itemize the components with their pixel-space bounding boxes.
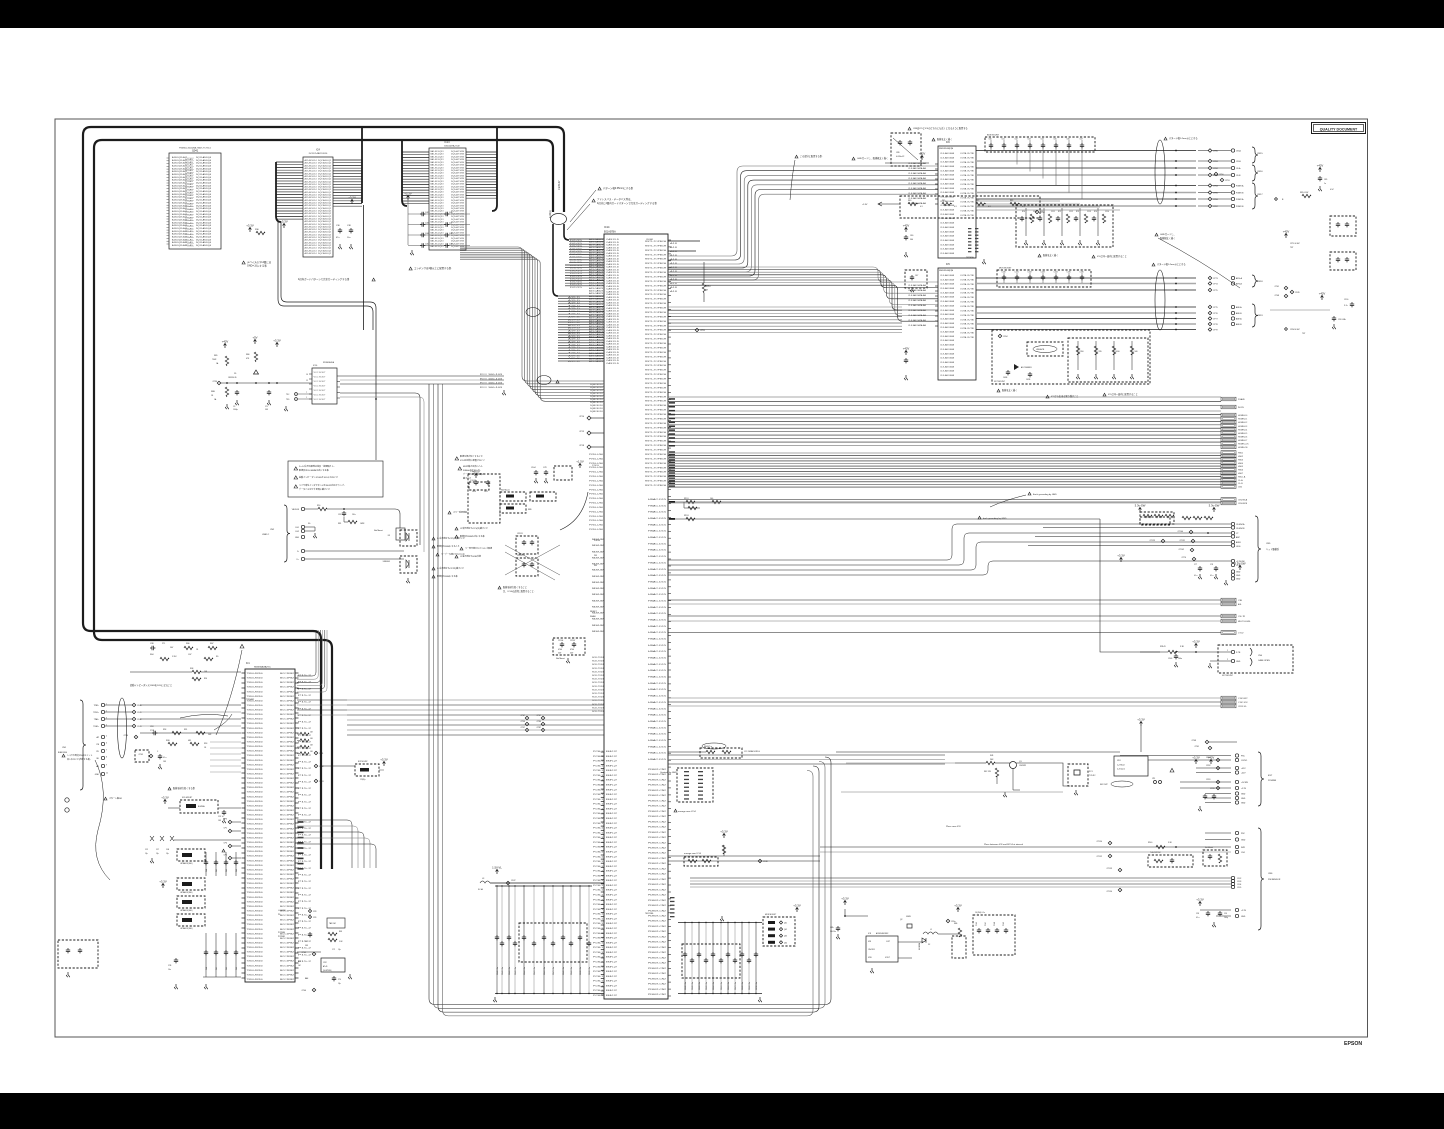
svg-text:DQ5-A7-VSS: DQ5-A7-VSS [451,191,465,194]
dashed box ULVCC [554,466,572,480]
svg-text:HSAC-D15: HSAC-D15 [648,701,668,704]
svg-text:PDB07-CN2: PDB07-CN2 [648,837,667,839]
svg-text:A13-CAS23: A13-CAS23 [589,336,604,339]
svg-text:TXD0-RXD0: TXD0-RXD0 [247,732,263,734]
svg-text:RST1-TOPBCH: RST1-TOPBCH [645,423,667,425]
svg-text:C144 0.1u: C144 0.1u [524,967,526,975]
svg-text:C53: C53 [236,967,238,970]
svg-text:A19-D: A19-D [568,357,582,360]
svg-text:CP154: CP154 [1107,891,1113,893]
wire IC4 bottom fanout [281,222,376,399]
svg-text:APG-A: APG-A [1236,277,1243,280]
svg-text:TXD0-RXD0: TXD0-RXD0 [247,796,263,798]
ferrite dashed box 3 [177,896,205,908]
svg-text:DQ7-A3-DQ2: DQ7-A3-DQ2 [318,236,332,239]
svg-text:A15-NC-D14: A15-NC-D14 [305,159,318,162]
svg-text:BA1-NC-DQ13: BA1-NC-DQ13 [431,231,445,234]
svg-text:BK2: BK2 [606,981,617,983]
power +42V and cap C85 right [1319,167,1322,172]
svg-text:PDB07-CN2: PDB07-CN2 [648,863,667,865]
svg-text:DQM0 SDCLK: DQM0 SDCLK [590,396,604,398]
title block QUALITY DOCUMENT [1312,123,1366,134]
terminal GND circles CN5 [1231,570,1234,573]
svg-text:MDM-3M: MDM-3M [592,551,605,553]
svg-text:PGAVE: PGAVE [1238,398,1245,401]
wire long lines from IC1 right to mid [297,699,347,701]
svg-text:HOME-D2: HOME-D2 [1238,422,1248,424]
svg-text:PCSL1: PCSL1 [593,799,603,801]
svg-text:P15-2: P15-2 [298,788,311,790]
svg-text:CLK-AB DATA: CLK-AB DATA [940,335,955,338]
svg-text:CLK-AB DATA: CLK-AB DATA [940,252,955,255]
svg-text:パターン幅0.35mmにする事: パターン幅0.35mmにする事 [603,186,634,190]
wire comb right edge of IC13 descending [492,127,497,211]
svg-text:TXD0-RXD0: TXD0-RXD0 [247,837,263,839]
svg-text:P15-2: P15-2 [298,768,311,770]
svg-text:TXD0-RXD0: TXD0-RXD0 [247,938,263,940]
svg-text:A18: A18 [670,246,677,249]
svg-text:OUTA OUTB/: OUTA OUTB/ [960,274,975,277]
svg-text:DQ7-A3-DQ2: DQ7-A3-DQ2 [318,212,332,215]
svg-text:BK2: BK2 [606,823,617,825]
wire OUT bundle driver IC5 lower to CN19 [976,306,1196,308]
svg-text:CP45: CP45 [302,952,307,954]
svg-text:A1C19686D5: A1C19686D5 [1021,366,1032,369]
svg-text:BK2: BK2 [606,971,617,973]
svg-text:TXD0-RXD0: TXD0-RXD0 [247,943,263,945]
svg-text:TPB1-: TPB1- [94,705,100,707]
svg-text:PDB07-CN2: PDB07-CN2 [648,842,667,844]
svg-text:IEEE1394: IEEE1394 [58,752,68,754]
terminal marks TXC TXD [295,393,298,396]
svg-text:A18: A18 [670,286,677,289]
svg-text:DQ11-A9-DQ4: DQ11-A9-DQ4 [196,182,212,185]
svg-text:RST1-TOPBCH: RST1-TOPBCH [645,254,667,256]
svg-text:CP93: CP93 [700,330,705,332]
svg-text:BA1-NC-DQ13: BA1-NC-DQ13 [431,215,445,218]
svg-text:TEST.SEL: TEST.SEL [645,913,654,915]
svg-text:R153: R153 [684,515,689,517]
svg-text:CP131: CP131 [1180,540,1186,542]
svg-text:C146: C146 [976,922,978,926]
svg-text:CAS13-D: CAS13-D [606,252,620,255]
svg-text:PDB07-CN2: PDB07-CN2 [648,931,667,933]
terminal C3B pair [1221,598,1236,602]
wire VBUS to comparator [360,509,400,528]
svg-text:DQM0 SDCLK: DQM0 SDCLK [590,384,604,386]
svg-text:BCC1FB2: BCC1FB2 [280,819,294,821]
svg-text:HSAC-D15: HSAC-D15 [648,606,668,609]
svg-text:P15-2: P15-2 [298,901,311,903]
wire exits IC1 right upper going up [297,630,316,676]
svg-text:BCC1FB2: BCC1FB2 [280,929,294,931]
svg-text:10u: 10u [347,237,350,239]
svg-text:MDM-3M: MDM-3M [592,600,605,602]
svg-text:DQ7-A3-DQ2: DQ7-A3-DQ2 [318,247,332,250]
svg-text:HSAC-D15: HSAC-D15 [648,555,668,558]
svg-text:DQ7-A3-DQ2: DQ7-A3-DQ2 [318,202,332,205]
svg-text:R81: R81 [338,523,341,525]
svg-text:DQM0 SDCLK: DQM0 SDCLK [590,402,604,404]
svg-text:BCC1FB2: BCC1FB2 [280,751,294,753]
svg-text:DQ5-A7-VSS: DQ5-A7-VSS [451,229,465,232]
power +42V cluster left of IC5 [905,350,908,355]
svg-text:RST1-TOPBCH: RST1-TOPBCH [645,370,667,372]
svg-text:RST1-TOPBCH: RST1-TOPBCH [645,419,667,421]
svg-text:OUTA OUTB/: OUTA OUTB/ [960,214,975,217]
svg-text:OUTA OUTB/: OUTA OUTB/ [960,292,975,295]
svg-text:DQ11-A9-DQ4: DQ11-A9-DQ4 [196,233,212,236]
svg-text:PCSL1: PCSL1 [593,861,603,863]
svg-text:BCC1FB2: BCC1FB2 [280,764,294,766]
svg-text:BCC1FB2: BCC1FB2 [280,869,294,871]
svg-text:RST1-TOPBCH: RST1-TOPBCH [645,485,667,487]
svg-text:BK2: BK2 [606,765,617,767]
svg-text:R85 0.30Z: R85 0.30Z [1300,192,1309,194]
IC14 right bus pin number blobs B [669,451,675,452]
svg-text:R50: R50 [317,505,320,507]
svg-text:BCC1FB2: BCC1FB2 [280,938,294,940]
svg-text:MDM-3M: MDM-3M [592,545,605,547]
svg-text:MDM-3M: MDM-3M [592,570,605,572]
svg-text:RST1-TOPBCH: RST1-TOPBCH [645,432,667,434]
svg-text:HS06: HS06 [1238,470,1244,472]
svg-text:CLK-AB DATA-AB: CLK-AB DATA-AB [908,284,927,287]
svg-text:P15-2: P15-2 [298,895,311,897]
svg-text:BK2: BK2 [606,861,617,863]
svg-text:D2: D2 [928,944,930,946]
dashed resistor box near IC14 [684,857,718,866]
IC14 right bus pin number blobs A [669,398,675,400]
svg-text:MDM-3M: MDM-3M [592,625,605,627]
svg-text:BK2: BK2 [606,828,617,830]
svg-text:BK2: BK2 [606,842,617,844]
svg-text:CP6: CP6 [313,917,316,919]
svg-text:A13-CAS23: A13-CAS23 [589,292,604,295]
capacitor bank 2 rails [678,922,762,924]
svg-text:CP49: CP49 [1295,292,1300,294]
svg-text:CF-ENCA: CF-ENCA [1236,523,1245,526]
svg-text:SMD26546(F)M: SMD26546(F)M [939,148,954,150]
svg-text:BK2: BK2 [606,756,617,758]
svg-text:A15-NC-D14: A15-NC-D14 [305,188,318,191]
svg-text:C141 0.1u: C141 0.1u [502,967,504,975]
svg-text:C169 0.1u: C169 0.1u [749,982,751,990]
svg-text:R04: R04 [150,654,153,656]
svg-text:NOT MOUNT: NOT MOUNT [1222,675,1234,677]
dashed box CP611 group [516,536,538,554]
svg-text:PCSL1: PCSL1 [593,928,603,930]
svg-text:R## 100-103: R## 100-103 [480,383,502,385]
svg-text:A19-D: A19-D [568,343,582,346]
svg-text:R44: R44 [298,961,301,963]
svg-text:R41: R41 [942,200,945,202]
svg-text:DQ11-A9-DQ4: DQ11-A9-DQ4 [196,199,212,202]
svg-text:BK2: BK2 [606,770,617,772]
svg-text:TXD0-RXD0: TXD0-RXD0 [247,970,263,972]
svg-text:RST1-TOPBCH: RST1-TOPBCH [645,463,667,465]
test point CP14 [587,416,591,420]
svg-text:BCC1FB2: BCC1FB2 [280,783,294,785]
svg-text:A13-CAS23: A13-CAS23 [589,243,604,246]
svg-text:A18: A18 [670,258,677,261]
svg-text:RST1-TOPBCH: RST1-TOPBCH [645,414,667,416]
svg-text:CLK-AB DATA: CLK-AB DATA [940,374,955,377]
svg-text:BA1-NC-DQ13: BA1-NC-DQ13 [431,207,445,210]
svg-text:A13-CAS23: A13-CAS23 [589,311,604,314]
svg-text:BCC1FB2: BCC1FB2 [280,714,294,716]
svg-text:C146 0.1u: C146 0.1u [544,967,546,975]
svg-text:BK2: BK2 [606,928,617,930]
connector CN2 USB brace [284,505,290,562]
svg-text:C12: C12 [145,849,148,851]
svg-text:CLK-AB DATA-AB: CLK-AB DATA-AB [908,304,927,307]
svg-text:PVDL-US0: PVDL-US0 [589,494,604,496]
svg-text:DQ5-A7-VSS: DQ5-A7-VSS [451,226,465,229]
svg-text:BCC1FB2: BCC1FB2 [280,915,294,917]
jumper JP5 circles [1154,781,1157,784]
svg-text:BCC1FB2: BCC1FB2 [280,924,294,926]
svg-text:C44: C44 [425,233,428,235]
svg-text:BK2: BK2 [606,890,617,892]
svg-text:47: 47 [706,290,708,292]
dashed box C1504 C1507 capacitors [553,638,585,655]
svg-text:DQ11-A9-DQ4: DQ11-A9-DQ4 [196,179,212,182]
svg-text:TXD0-RXD0: TXD0-RXD0 [247,929,263,931]
svg-text:C190: C190 [1344,299,1348,301]
svg-text:RST1-TOPBCH: RST1-TOPBCH [645,401,667,403]
svg-text:A19-D: A19-D [568,316,582,319]
dashed box bottom far left [58,940,98,968]
svg-text:DQ5-A7-VSS: DQ5-A7-VSS [451,218,465,221]
svg-text:C92 0.8A: C92 0.8A [1338,318,1346,321]
svg-text:A18: A18 [670,270,677,273]
svg-text:DQ5-A7-VSS: DQ5-A7-VSS [451,169,465,172]
svg-text:DQ11-A9-DQ4: DQ11-A9-DQ4 [196,207,212,210]
svg-text:BA1-NC-DQ13: BA1-NC-DQ13 [431,202,445,205]
svg-text:PCSL1: PCSL1 [593,962,603,964]
thin bus 8 wires into IC14 left [460,247,604,381]
svg-text:P15-2: P15-2 [298,848,311,850]
svg-text:C135: C135 [1067,272,1071,274]
svg-text:CN18: CN18 [1257,281,1263,283]
svg-text:SCK-TXD1: SCK-TXD1 [592,657,604,659]
svg-text:TXD0-RXD0: TXD0-RXD0 [247,769,263,771]
svg-text:CF-A: CF-A [1236,167,1241,170]
svg-text:PCSL1: PCSL1 [593,832,603,834]
svg-text:C166 0.1u: C166 0.1u [728,982,730,990]
svg-text:R70: R70 [1022,211,1025,213]
svg-text:A13-CAS23: A13-CAS23 [589,344,604,347]
wire comb right edge of IC4 descending [361,127,363,203]
svg-text:P15-2: P15-2 [298,815,311,817]
svg-text:R700: R700 [1080,351,1084,353]
svg-text:BK2: BK2 [606,813,617,815]
ferrite dashed box 1 CNTBA [177,849,205,861]
svg-text:PDB07-CN2: PDB07-CN2 [648,790,667,792]
svg-text:Q43: Q43 [784,936,787,938]
svg-text:TXD0-RXD0: TXD0-RXD0 [247,906,263,908]
svg-text:A1S62HJ618NC: A1S62HJ618NC [876,932,889,935]
svg-text:IC5: IC5 [946,263,950,266]
svg-text:DD15: DD15 [570,270,582,272]
wire bundle mid group to driver B [668,267,938,282]
svg-text:D+: D+ [297,559,299,561]
svg-text:P15-2: P15-2 [298,828,311,830]
svg-text:C130: C130 [1002,272,1006,274]
svg-text:R## 100-103: R## 100-103 [480,374,502,376]
svg-text:+42V: +42V [903,347,910,351]
svg-text:A13-CAS23: A13-CAS23 [589,284,604,287]
svg-text:CLK-AB DATA: CLK-AB DATA [940,344,955,347]
svg-text:BA1-NC-DQ13: BA1-NC-DQ13 [431,172,445,175]
svg-text:PCSL1: PCSL1 [593,785,603,787]
svg-text:C89: C89 [896,152,899,154]
svg-text:arrange near IC14: arrange near IC14 [678,810,697,813]
svg-text:IC14: IC14 [604,225,610,229]
annotation triangle note under IC13 [409,267,412,270]
test point CP18 [587,445,591,449]
svg-text:+3.3V: +3.3V [1196,898,1204,902]
svg-text:15p: 15p [338,949,341,951]
USB terminal circles [301,507,304,510]
svg-text:C135: C135 [1237,887,1241,889]
svg-text:R08: R08 [190,668,193,670]
svg-text:BK2: BK2 [606,832,617,834]
svg-text:CAS13-D: CAS13-D [606,326,620,329]
svg-text:BA1-NC-DQ13: BA1-NC-DQ13 [431,158,445,161]
annotation pattern width note [598,187,601,190]
svg-text:PDB07-CN2: PDB07-CN2 [648,889,667,891]
svg-text:HSAC-D15: HSAC-D15 [648,549,668,552]
capacitor bank under IC13 [407,195,410,200]
svg-text:PDB07-CN2: PDB07-CN2 [648,952,667,954]
svg-text:C41: C41 [216,869,218,872]
svg-text:RST1-TOPBCH: RST1-TOPBCH [645,330,667,332]
svg-text:SCK-TXD1: SCK-TXD1 [592,686,604,688]
svg-text:OUTA OUTB/: OUTA OUTB/ [960,327,975,330]
svg-text:MDM-3M: MDM-3M [592,619,605,621]
svg-text:SCK-TXD1: SCK-TXD1 [592,671,604,673]
svg-text:SCK-TXD1: SCK-TXD1 [592,707,604,709]
svg-text:OUTA OUTB/: OUTA OUTB/ [960,210,975,213]
annotation wire thick note [932,138,935,141]
svg-text:CS4: CS4 [1241,852,1245,854]
svg-text:CLK-AB DATA: CLK-AB DATA [940,182,955,185]
svg-text:C131: C131 [1015,272,1019,274]
svg-text:BA1-NC-DQ13: BA1-NC-DQ13 [431,174,445,177]
svg-text:BK2: BK2 [606,966,617,968]
svg-text:BCC1FB2: BCC1FB2 [280,947,294,949]
svg-text:3-7u: 3-7u [1344,305,1348,307]
power +3.3V left of ferrites [162,883,165,888]
svg-text:BK2: BK2 [606,785,617,787]
dashed box not mount cn1 [135,750,149,762]
svg-text:+3.3V: +3.3V [280,220,288,224]
diode D1 1SS250 [254,370,259,374]
svg-text:DQ11-A9-DQ4: DQ11-A9-DQ4 [196,187,212,190]
svg-text:A15-NC-D14: A15-NC-D14 [305,244,318,247]
wire SERVO lines driver A [976,200,1060,202]
svg-text:CLK-AB DATA: CLK-AB DATA [940,222,955,225]
svg-text:CN5: CN5 [1266,543,1271,545]
svg-text:DQ7-A3-DQ2: DQ7-A3-DQ2 [318,172,332,175]
diode array D4 USB0505 lower dashed [400,556,417,573]
svg-text:CP46: CP46 [302,990,307,992]
svg-text:BCC1FB2: BCC1FB2 [280,897,294,899]
svg-text:DQ7-A3-DQ2: DQ7-A3-DQ2 [318,186,332,189]
svg-text:arrange near IC14: arrange near IC14 [684,852,702,855]
svg-text:CAS13-D: CAS13-D [606,362,620,365]
svg-text:CLK-AB DATA: CLK-AB DATA [940,243,955,246]
terminal CSL.TR pair [1221,614,1236,618]
svg-text:BCC1FB2: BCC1FB2 [280,833,294,835]
svg-text:3.3v-SW: 3.3v-SW [1209,504,1220,508]
svg-text:HSAC-D15: HSAC-D15 [648,676,668,679]
svg-text:CLK-AB DATA: CLK-AB DATA [940,169,955,172]
capacitors C77 C78 CN5 [1198,566,1202,571]
svg-text:A15-NC-D14: A15-NC-D14 [305,215,318,218]
svg-text:HSAC-D15: HSAC-D15 [648,504,668,507]
wire bundle into CN6 upper [820,846,1231,848]
wire +42V feed top right [885,162,929,164]
ferrite dashed box 4 [177,914,205,926]
test point CP102 [1190,548,1194,552]
svg-text:PI1TEM1: PI1TEM1 [278,936,285,938]
svg-text:A13-CAS23: A13-CAS23 [589,346,604,349]
svg-text:R63: R63 [339,931,342,933]
svg-text:A13-CAS23: A13-CAS23 [589,352,604,355]
IC IC13 with left pin comb [402,151,429,153]
svg-text:CP86: CP86 [537,721,542,723]
svg-text:1B1044TA-70-E: 1B1044TA-70-E [444,145,460,148]
test point CP140 [1189,530,1193,534]
capacitor bank 1 bottom rail [495,993,604,995]
svg-text:BA1-NC-DQ13: BA1-NC-DQ13 [431,180,445,183]
svg-text:A15-NC-D14: A15-NC-D14 [305,241,318,244]
svg-text:0.3: 0.3 [988,206,991,208]
svg-text:Q44: Q44 [784,942,787,944]
svg-text:GND: GND [1241,794,1246,796]
svg-text:C85: C85 [1324,179,1327,181]
JP4 jumper box [1114,756,1148,776]
svg-text:+42V: +42V [919,152,926,156]
svg-text:RST1-TOPBCH: RST1-TOPBCH [645,379,667,381]
svg-text:A13-CAS23: A13-CAS23 [589,330,604,333]
svg-text:VCC SOUT: VCC SOUT [314,395,327,397]
connector CN18 brace [1252,275,1258,287]
dashed box right filter2 [1330,252,1356,270]
svg-text:RST1-TOPBCH: RST1-TOPBCH [645,383,667,385]
svg-text:BK2: BK2 [606,995,617,997]
svg-text:HSAC-D15: HSAC-D15 [648,720,668,723]
svg-text:BK2: BK2 [606,957,617,959]
svg-text:CAS13-D: CAS13-D [606,348,620,351]
svg-text:C62: C62 [1015,139,1018,141]
svg-text:DQ7-A3-DQ2: DQ7-A3-DQ2 [318,159,332,162]
svg-text:P15-2: P15-2 [298,775,311,777]
capacitor C3 1500p [235,390,239,395]
svg-text:P15-2: P15-2 [298,682,311,684]
svg-text:A13-CAS23: A13-CAS23 [589,314,604,317]
svg-text:VCC SOUT: VCC SOUT [314,377,327,379]
svg-text:OUTA OUTB/: OUTA OUTB/ [960,283,975,286]
svg-text:MDM-3M: MDM-3M [592,557,605,559]
svg-text:RST1-TOPBCH: RST1-TOPBCH [645,361,667,363]
resistor R50 on VBUS [305,508,318,510]
svg-text:PVDL-US0: PVDL-US0 [589,511,604,513]
svg-text:15p: 15p [166,853,169,855]
